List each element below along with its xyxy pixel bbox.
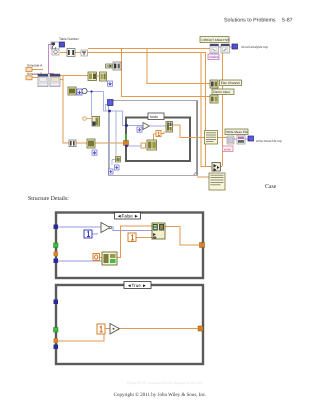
svg-text:write meas file top: write meas file top — [256, 139, 282, 143]
svg-text:Write Meas File: Write Meas File — [226, 130, 248, 134]
svg-text:Simulate A: Simulate A — [27, 64, 43, 68]
svg-text:Nodes: Nodes — [209, 55, 219, 59]
svg-text:Figure P5.87 continued block d: Figure P5.87 continued block diagram det… — [127, 381, 203, 385]
svg-text:circuit analysis top: circuit analysis top — [241, 45, 268, 49]
svg-text:Elec Channel: Elec Channel — [221, 81, 240, 85]
svg-text:◄False ►: ◄False ► — [117, 214, 139, 219]
svg-text:5-87: 5-87 — [282, 18, 293, 24]
svg-text:Demo Input: Demo Input — [213, 90, 230, 94]
svg-text:Node: Node — [150, 115, 158, 119]
svg-text:Copyright © 2011 by John Wil: Copyright © 2011 by John Wiley & Sons, I… — [114, 392, 207, 398]
svg-text:Structure Details:: Structure Details: — [28, 195, 69, 202]
svg-text:CIRCUIT ANALYSIS: CIRCUIT ANALYSIS — [202, 38, 230, 42]
svg-text:Case: Case — [265, 184, 277, 190]
svg-text:Table Number: Table Number — [59, 37, 80, 41]
svg-text:error: error — [224, 147, 232, 151]
svg-text:◄True ►: ◄True ► — [127, 283, 147, 288]
svg-text:Solutions to Problems: Solutions to Problems — [224, 18, 276, 24]
